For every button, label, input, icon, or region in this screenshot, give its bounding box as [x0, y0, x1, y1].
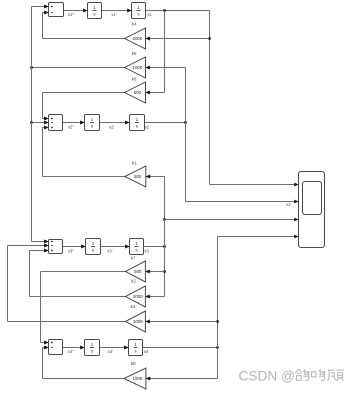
svg-text:1000: 1000 [133, 65, 143, 70]
node x3 junction [163, 245, 166, 248]
integrator I1b [127, 3, 145, 19]
wire sum1 output x1'' [64, 10, 88, 12]
wire x2 down to scope port2 [185, 123, 187, 202]
svg-text:k6: k6 [132, 77, 137, 82]
wire x3 into gain k7 input [145, 271, 164, 273]
wire x4 vertical [217, 237, 219, 379]
node x3 k7 junction [163, 270, 166, 273]
node x3 scope junction [163, 218, 166, 221]
wire k5 output leftward [32, 67, 125, 69]
wire x4 output segment [143, 347, 218, 349]
wire sum4 output x4'' [63, 347, 85, 349]
sum block S4 [44, 340, 62, 355]
wire x2 output segment [145, 122, 186, 124]
integrator I2a [80, 115, 99, 131]
sum block S2 [44, 115, 62, 131]
wire k1 output to sum2 port3 [43, 176, 125, 178]
wire x3 vertical [164, 220, 166, 297]
svg-text:k7: k7 [131, 255, 136, 260]
gain k7 (500) [126, 261, 150, 282]
wire sum3 output x3'' [63, 246, 86, 248]
wire x1 into gain k6 input [146, 92, 165, 94]
svg-text:x3': x3' [107, 248, 112, 253]
wire x1 to scope port1 [210, 184, 299, 186]
svg-text:x3: x3 [144, 248, 149, 253]
watermark glyph ming [312, 369, 325, 380]
wire k2 output to sum3 port3 [30, 296, 126, 298]
svg-text:2000: 2000 [133, 294, 143, 299]
svg-text:500: 500 [134, 269, 142, 274]
svg-text:x4'': x4'' [68, 349, 74, 354]
wire x1 output segment [146, 10, 210, 12]
wire x4 to scope port4 [218, 236, 299, 238]
wire x1 to gain k4 input [146, 38, 210, 40]
gain k5 (1000) [125, 57, 150, 78]
node x1 junction [163, 9, 166, 12]
integrator I1a [83, 3, 101, 19]
sum block S1 [44, 3, 63, 17]
watermark glyph gu [328, 370, 344, 381]
wire k5 net down to sum3 port1 [31, 123, 33, 242]
svg-text:x1': x1' [111, 12, 116, 17]
svg-text:k4: k4 [132, 21, 137, 26]
wire k3 output to sum3 port2 [8, 321, 126, 323]
wire x4 into gain k3 input [146, 321, 218, 323]
svg-text:k2: k2 [131, 278, 136, 283]
watermark glyph ge [295, 369, 309, 380]
svg-text:1000: 1000 [133, 319, 143, 324]
svg-text:x1: x1 [147, 12, 152, 17]
node x1 to k4 junction [208, 37, 211, 40]
wire k5 net into sum2 port2 [32, 122, 49, 124]
wire x1 right-side vertical [209, 11, 211, 185]
gain k4 (2000) [125, 28, 150, 49]
gain k8 (1000) [124, 368, 150, 389]
svg-text:k8: k8 [131, 361, 136, 366]
integrator I3a [81, 239, 100, 255]
svg-text:k3: k3 [131, 304, 136, 309]
wire x1' segment [102, 10, 132, 12]
svg-text:k1: k1 [132, 160, 137, 165]
gain k2 (2000) [126, 286, 150, 307]
wire x4 into gain k8 input [146, 378, 218, 380]
wire k5 net down [31, 68, 33, 123]
gain k6 (500) [125, 82, 150, 103]
svg-text:x4: x4 [144, 349, 149, 354]
node k5 net sum2 junction [30, 121, 33, 124]
node x2 junction [184, 121, 187, 124]
wire x2' segment [100, 122, 130, 124]
wire k6 output to sum2 port1 [43, 92, 125, 94]
wire k4 output to sum1 minus port [43, 38, 125, 40]
svg-text:x1'': x1'' [68, 12, 74, 17]
wire x3 output segment [144, 246, 165, 248]
gain k1 (500) [125, 166, 150, 187]
svg-text:500: 500 [134, 174, 142, 179]
wire x3 to scope port3 [165, 219, 299, 221]
svg-text:x3'': x3'' [68, 248, 74, 253]
integrator I2b [125, 115, 144, 131]
sum block S3 [44, 240, 62, 254]
svg-text:x2: x2 [145, 124, 150, 129]
wire x3 into gain k2 input [145, 296, 164, 298]
wire k5 net up to sum1 plus port [31, 7, 33, 68]
svg-text:1000: 1000 [132, 376, 142, 381]
wire x3' segment [101, 246, 130, 248]
gain k3 (1000) [126, 311, 150, 332]
svg-text:CSDN @: CSDN @ [239, 369, 295, 384]
integrator I4a [80, 340, 99, 356]
svg-text:x2': x2' [109, 124, 114, 129]
svg-text:k5: k5 [132, 51, 137, 56]
svg-text:2000: 2000 [133, 36, 143, 41]
wire k7 output to sum4 port1 [41, 271, 126, 273]
svg-text:x2: x2 [286, 202, 291, 207]
integrator I4b [124, 340, 142, 356]
svg-text:x2'': x2'' [68, 124, 74, 129]
scope block [299, 172, 325, 248]
wire x3 up to gain k1 input [164, 177, 166, 220]
wire x4' segment [100, 347, 129, 349]
node x4 junction [216, 346, 219, 349]
wire sum2 output x2'' [63, 122, 85, 124]
integrator I3b [125, 239, 143, 255]
node k5 output junction [30, 66, 33, 69]
node x4 k3 junction [216, 320, 219, 323]
svg-text:500: 500 [134, 90, 142, 95]
wire k8 output to sum4 port2 [43, 378, 125, 380]
svg-text:x4': x4' [108, 349, 113, 354]
wire x2 up to gain k5 input [185, 68, 187, 123]
wire x1 down to gain k6 [164, 11, 166, 93]
